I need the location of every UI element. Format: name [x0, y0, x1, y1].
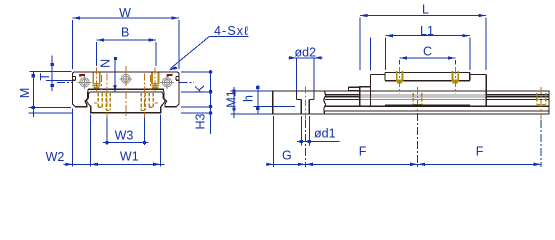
dimension T	[30, 56, 73, 92]
svg-text:F: F	[359, 145, 367, 159]
rail (side view)	[273, 91, 549, 114]
svg-text:W1: W1	[120, 149, 139, 163]
dimension h	[241, 85, 295, 114]
dimension M1	[225, 87, 273, 118]
svg-text:T: T	[38, 73, 52, 81]
svg-text:H3: H3	[194, 113, 208, 129]
block body (side view)	[349, 72, 487, 106]
tapped hole left (olive thread)	[93, 72, 101, 87]
dimension W3	[103, 114, 149, 145]
svg-text:ød1: ød1	[314, 127, 336, 141]
brown centerlines (ball rows + view center)	[97, 66, 156, 119]
groove lines exposed left	[325, 95, 360, 100]
svg-text:h: h	[241, 95, 255, 102]
svg-text:N: N	[98, 59, 112, 68]
rail hole 3 (hidden, right end)	[537, 87, 546, 120]
grease nipple adapter left	[349, 87, 371, 107]
dimension W1	[87, 114, 165, 166]
svg-text:W2: W2	[46, 150, 65, 164]
block tapped hole left (olive)	[396, 67, 403, 94]
dimension G	[266, 116, 305, 167]
label od2 with extension arrows	[289, 46, 323, 92]
svg-text:B: B	[121, 25, 129, 39]
center hole circle (gray with crosshair)	[119, 72, 132, 85]
dimension M	[18, 72, 72, 117]
svg-text:M: M	[18, 88, 32, 98]
rail hole 2 (hidden under block)	[413, 87, 421, 120]
rail hole 1 (sectioned counterbore)	[297, 87, 315, 120]
tapped hole right (olive thread)	[151, 72, 159, 87]
bottom edge	[360, 106, 486, 108]
end cap left	[371, 75, 386, 107]
dimension H3	[181, 111, 213, 129]
screw hole circle right (gray with crosshair)	[160, 75, 174, 89]
svg-text:G: G	[282, 149, 292, 163]
blue hole centerlines below rail	[305, 113, 541, 167]
svg-text:L: L	[422, 3, 429, 17]
end cap right	[470, 75, 486, 107]
lower rail lines	[325, 106, 550, 111]
dimension L1	[385, 24, 469, 70]
svg-text:F: F	[476, 145, 484, 159]
svg-text:W3: W3	[115, 128, 134, 142]
dimension B	[97, 25, 157, 66]
hidden ball track lines (olive dashed cups)	[94, 93, 158, 111]
break line	[324, 91, 326, 114]
groove lines exposed right	[486, 95, 549, 100]
groove lines hidden under block (gray)	[360, 95, 486, 100]
dimension L	[360, 3, 486, 71]
dimension W2	[46, 109, 98, 167]
rail (cross-section)	[86, 92, 165, 113]
dimension F (second)	[418, 145, 542, 167]
block outline (cross-section)	[73, 72, 180, 107]
blue centerline horizontal (hole axis)	[57, 81, 194, 83]
dimension C	[400, 45, 456, 65]
dimension od1	[297, 116, 340, 146]
label 4-Sxl with leader	[168, 24, 249, 70]
dimension N	[98, 57, 117, 92]
dimension K	[181, 70, 213, 134]
screw hole circle left (gray with crosshair)	[78, 75, 92, 89]
svg-text:C: C	[423, 45, 432, 59]
svg-text:M1: M1	[225, 90, 239, 107]
block tapped hole right (olive)	[452, 67, 459, 94]
dimension F (first)	[305, 145, 417, 167]
dimension W	[73, 6, 180, 69]
